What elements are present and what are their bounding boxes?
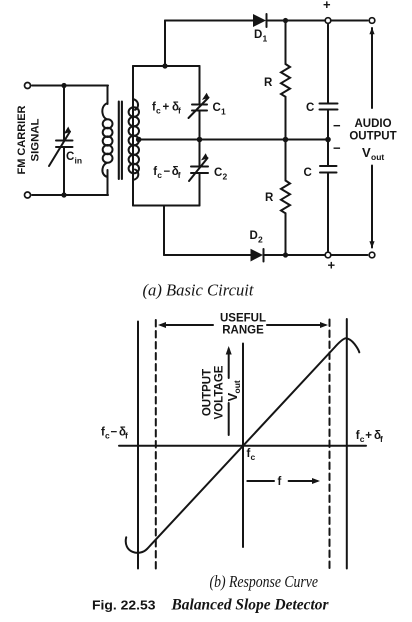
svg-text:out: out (232, 380, 242, 393)
svg-text:f: f (178, 106, 181, 116)
svg-text:C: C (213, 102, 221, 114)
svg-text:V: V (362, 145, 371, 160)
svg-text:in: in (75, 156, 83, 166)
svg-text:VOLTAGE: VOLTAGE (214, 365, 226, 419)
svg-text:Fig. 22.53: Fig. 22.53 (92, 597, 156, 612)
svg-text:USEFUL: USEFUL (220, 313, 266, 325)
svg-text:f: f (380, 434, 383, 444)
svg-text:R: R (264, 77, 273, 89)
svg-text:(a) Basic Circuit: (a) Basic Circuit (143, 281, 254, 300)
svg-text:−: − (111, 427, 118, 439)
svg-text:c: c (157, 170, 162, 180)
svg-text:OUTPUT: OUTPUT (202, 369, 214, 416)
svg-text:C: C (304, 167, 312, 179)
svg-text:out: out (371, 152, 384, 162)
svg-text:2: 2 (223, 172, 228, 182)
svg-text:−: − (333, 118, 341, 133)
svg-text:c: c (105, 431, 110, 441)
svg-text:C: C (306, 102, 314, 114)
svg-text:c: c (251, 452, 256, 462)
svg-text:SIGNAL: SIGNAL (30, 118, 42, 161)
svg-text:RANGE: RANGE (222, 325, 264, 337)
svg-text:C: C (214, 167, 222, 179)
svg-text:OUTPUT: OUTPUT (349, 131, 396, 143)
svg-text:C: C (66, 151, 74, 163)
svg-text:−: − (333, 141, 341, 156)
svg-text:c: c (360, 434, 365, 444)
svg-text:2: 2 (258, 235, 263, 245)
svg-text:c: c (156, 106, 161, 116)
svg-text:f: f (125, 431, 128, 441)
svg-text:R: R (265, 192, 274, 204)
svg-text:−: − (164, 166, 171, 178)
svg-text:+: + (323, 0, 331, 12)
svg-text:f: f (278, 476, 282, 488)
svg-text:AUDIO: AUDIO (354, 118, 391, 130)
svg-text:D: D (250, 230, 258, 242)
svg-text:+: + (365, 430, 372, 442)
svg-text:+: + (328, 258, 336, 273)
svg-text:(b) Response Curve: (b) Response Curve (210, 572, 319, 591)
svg-text:f: f (178, 170, 181, 180)
svg-text:FM CARRIER: FM CARRIER (16, 105, 28, 174)
svg-text:Balanced Slope Detector: Balanced Slope Detector (171, 596, 330, 613)
svg-text:1: 1 (221, 107, 226, 117)
svg-text:+: + (163, 102, 170, 114)
svg-text:1: 1 (263, 34, 268, 44)
svg-text:D: D (254, 29, 262, 41)
